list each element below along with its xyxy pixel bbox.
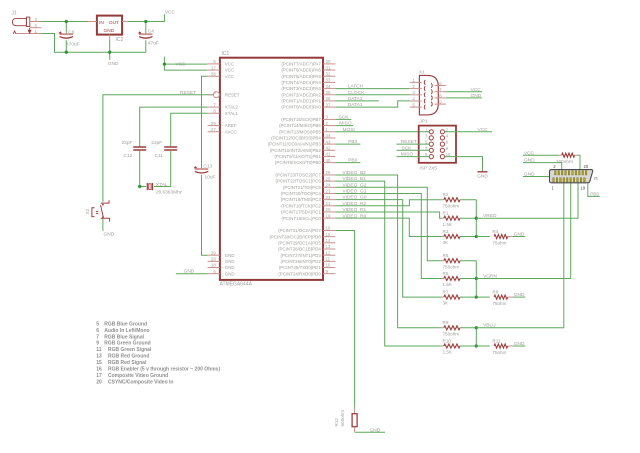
svg-text:19: 19	[326, 213, 331, 218]
IC2 OUT pin lead	[122, 21, 128, 23]
wire VIDEO_G0	[335, 200, 441, 297]
svg-text:75ohm: 75ohm	[492, 350, 506, 355]
J1 pin 1 lead	[16, 33, 41, 35]
wire CLOCK to DB9 pin3	[335, 94, 409, 96]
IC2 GND pin lead	[109, 35, 111, 40]
node: junction C4 / VCC wire	[144, 20, 147, 23]
svg-text:29: 29	[211, 121, 216, 126]
J1 sleeve caret	[13, 31, 16, 34]
svg-text:22: 22	[326, 195, 331, 200]
connector JP1 ISP 2X5	[419, 126, 456, 163]
capacitor C6	[60, 33, 74, 35]
svg-text:(PCINT22/TOSC1)PC6: (PCINT22/TOSC1)PC6	[275, 179, 321, 184]
svg-text:3K: 3K	[443, 301, 450, 306]
svg-text:S2: S2	[85, 208, 90, 214]
svg-text:9: 9	[96, 341, 99, 347]
wire LATCH to DB9 pin2	[335, 88, 409, 90]
svg-text:47uF: 47uF	[148, 40, 159, 46]
svg-text:27: 27	[211, 127, 216, 132]
svg-text:6: 6	[96, 328, 99, 334]
svg-text:RGB Red Ground: RGB Red Ground	[108, 354, 149, 360]
svg-text:VCC: VCC	[471, 87, 482, 93]
svg-text:R12: R12	[334, 418, 339, 427]
svg-text:VCC: VCC	[225, 62, 234, 67]
svg-text:GND: GND	[514, 292, 525, 298]
svg-text:CLOCK: CLOCK	[348, 90, 365, 96]
connector X1 DB9	[419, 75, 438, 115]
wire: IC2 GND to rail	[109, 40, 111, 60]
svg-text:GND: GND	[108, 61, 119, 67]
resistor R12 500ohm	[354, 408, 356, 414]
svg-text:12: 12	[326, 250, 331, 255]
svg-text:VIDEO_G2: VIDEO_G2	[342, 182, 366, 188]
wire VCC at DB9 pin7	[446, 91, 482, 93]
wire: C13 to IC1 pin39 GND	[202, 175, 208, 255]
wire JP1 pin10 to GND	[444, 157, 482, 172]
capacitor C13	[195, 168, 209, 170]
svg-text:VCC: VCC	[225, 68, 234, 73]
svg-text:750ohm: 750ohm	[443, 264, 460, 269]
svg-text:1.5K: 1.5K	[443, 222, 453, 227]
wire SCART pin19 to PB0	[588, 183, 600, 197]
svg-text:GND: GND	[514, 232, 525, 238]
svg-text:XTAL2: XTAL2	[225, 105, 239, 110]
svg-text:(PCINT9/CLKO/T1)PB1: (PCINT9/CLKO/T1)PB1	[274, 154, 321, 159]
resistor R1 1.5K	[442, 217, 444, 219]
wire: IC2 OUT to VCC	[128, 14, 165, 21]
svg-text:26: 26	[326, 170, 331, 175]
wire VIDEO_R0	[335, 218, 441, 236]
wire: RESET net from IC1 pin4 to switch S2	[103, 95, 213, 202]
svg-text:VIDEO_G1: VIDEO_G1	[342, 189, 366, 195]
svg-text:25: 25	[326, 176, 331, 181]
svg-text:31: 31	[326, 65, 331, 70]
wire MOSI to JP1 pin1	[335, 131, 429, 133]
resistor R6 750ohm	[442, 260, 444, 262]
svg-text:R7: R7	[443, 290, 449, 295]
svg-text:RGB Enabler (5 v through resis: RGB Enabler (5 v through resistor ~ 200 …	[108, 367, 220, 373]
svg-text:40: 40	[326, 158, 331, 163]
svg-text:37: 37	[326, 102, 331, 107]
svg-text:C13: C13	[203, 164, 212, 170]
wire VCC from JP1 pin2	[444, 131, 492, 133]
wire VIDEO_R2	[335, 200, 441, 206]
svg-text:(PCINT23/TOSC2)PC7: (PCINT23/TOSC2)PC7	[275, 173, 321, 178]
svg-text:VIDEO_B2: VIDEO_B2	[342, 170, 366, 176]
wire MISO to JP1 pin9	[397, 156, 430, 158]
svg-text:RESET: RESET	[180, 90, 196, 96]
resistor R2 750ohm	[442, 199, 444, 201]
svg-text:(PCINT29/OC1A)PD5: (PCINT29/OC1A)PD5	[278, 240, 321, 245]
svg-text:GND: GND	[370, 427, 381, 433]
svg-text:VIDEO_R0: VIDEO_R0	[342, 213, 366, 219]
svg-text:13: 13	[326, 244, 331, 249]
svg-text:(PCINT17/SDA)PC1: (PCINT17/SDA)PC1	[281, 210, 321, 215]
wire GND to SCART left	[523, 176, 550, 178]
svg-text:10: 10	[326, 263, 331, 268]
svg-text:32: 32	[326, 71, 331, 76]
svg-text:(PCINT7/ADC7)PA7: (PCINT7/ADC7)PA7	[281, 62, 321, 67]
svg-text:Audio In Left/Mono: Audio In Left/Mono	[104, 328, 149, 334]
wire VIDEO_B2	[335, 175, 441, 328]
svg-text:34: 34	[326, 84, 331, 89]
svg-text:VCC: VCC	[478, 127, 489, 133]
wire PD7 to R12	[335, 230, 354, 407]
svg-text:VCC: VCC	[225, 74, 234, 79]
svg-text:GND: GND	[104, 28, 115, 34]
svg-text:RGB Red Signal: RGB Red Signal	[108, 360, 147, 366]
svg-text:MOSI: MOSI	[343, 127, 355, 133]
svg-text:(PCINT8/XCK0/T0)PB0: (PCINT8/XCK0/T0)PB0	[275, 160, 321, 165]
wire GND at DB9 pin8	[446, 97, 482, 99]
svg-text:28.6363Mhz: 28.6363Mhz	[156, 189, 183, 195]
ground symbol at JP1	[478, 171, 488, 173]
wire: C6 bottom lead	[65, 40, 67, 52]
wire: jack sleeve to ground rail	[41, 34, 146, 53]
svg-text:18: 18	[211, 263, 216, 268]
svg-text:17: 17	[96, 373, 102, 379]
svg-text:(PCINT13/MOSI)PB5: (PCINT13/MOSI)PB5	[279, 129, 321, 134]
svg-text:Composite Video Ground: Composite Video Ground	[108, 373, 168, 379]
IC1 right pins	[323, 63, 335, 65]
node: junction crystal left	[138, 185, 141, 188]
resistor R9 750ohm	[442, 327, 444, 329]
IC2 IN pin lead	[88, 21, 97, 23]
svg-text:GND: GND	[184, 269, 195, 275]
wire resistor to SCART pin16	[577, 155, 580, 169]
IC IC1 ATMEGA644A body	[220, 58, 323, 280]
svg-text:22pF: 22pF	[151, 140, 162, 146]
svg-text:13: 13	[96, 354, 102, 360]
wire: DAC summing vertical	[475, 261, 477, 297]
svg-text:VCC: VCC	[165, 10, 176, 16]
svg-text:GND: GND	[225, 253, 235, 258]
wire DATA2 stub	[335, 100, 379, 102]
svg-text:(PCINT3/ADC3)PA3: (PCINT3/ADC3)PA3	[281, 86, 321, 91]
svg-text:7: 7	[96, 334, 99, 340]
wire RESET to JP1 pin5	[397, 143, 430, 145]
svg-text:(PCINT21/TDI)PC5: (PCINT21/TDI)PC5	[283, 185, 321, 190]
svg-text:(PCINT25/TXD0)PD1: (PCINT25/TXD0)PD1	[279, 265, 322, 270]
svg-text:DATA1: DATA1	[348, 102, 363, 108]
svg-text:MISO: MISO	[401, 152, 414, 158]
connector J1 audio jack	[12, 18, 26, 25]
svg-text:11: 11	[96, 347, 102, 353]
svg-text:XTAL: XTAL	[156, 182, 168, 188]
wire: XTAL1 pin8 to C11	[171, 113, 208, 146]
svg-text:XTAL1: XTAL1	[225, 111, 239, 116]
resistor R7 3K	[442, 296, 444, 298]
svg-text:(PCINT12/OC0B/SS)PB4: (PCINT12/OC0B/SS)PB4	[271, 136, 321, 141]
svg-text:3K: 3K	[443, 240, 450, 245]
node: junction J1/C6/IC2-IN	[65, 20, 68, 23]
svg-text:(PCINT18/TCK)PC2: (PCINT18/TCK)PC2	[281, 203, 321, 208]
svg-text:C12: C12	[124, 153, 133, 159]
svg-text:(PCINT15/SCK)PB7: (PCINT15/SCK)PB7	[281, 117, 321, 122]
svg-text:(PCINT14/MISO)PB6: (PCINT14/MISO)PB6	[279, 123, 321, 128]
wire: S2 to GND	[102, 219, 104, 231]
svg-text:R4: R4	[492, 229, 498, 234]
SCART pins top row	[555, 171, 557, 175]
svg-text:GND: GND	[225, 271, 235, 276]
wire DATA1 to DB9 pin4	[335, 101, 409, 107]
svg-text:(PCINT24/RXD0)PD0: (PCINT24/RXD0)PD0	[278, 271, 321, 276]
resistor R5 1.5K	[442, 278, 444, 280]
svg-text:(PCINT26/INT0)PD2: (PCINT26/INT0)PD2	[281, 259, 322, 264]
capacitor C12	[133, 146, 146, 148]
svg-text:(PCINT0/ADC0)PA0: (PCINT0/ADC0)PA0	[281, 105, 321, 110]
svg-text:ISP 2X5: ISP 2X5	[419, 165, 437, 171]
svg-text:GND: GND	[524, 158, 535, 164]
svg-text:(PCINT5/ADC5)PA5: (PCINT5/ADC5)PA5	[281, 74, 321, 79]
crystal XTAL 28.6363Mhz	[146, 183, 148, 190]
svg-text:R6: R6	[443, 253, 449, 258]
svg-text:15: 15	[96, 360, 102, 366]
resistor R3 3K	[442, 236, 444, 238]
svg-text:30: 30	[326, 59, 331, 64]
svg-text:VIDEO_G0: VIDEO_G0	[342, 195, 366, 201]
svg-text:C6: C6	[68, 29, 74, 35]
svg-text:IN: IN	[99, 20, 104, 26]
wire R12 to GND	[355, 431, 385, 433]
svg-text:VIDEO_R2: VIDEO_R2	[342, 201, 366, 207]
svg-text:16: 16	[326, 226, 331, 231]
svg-text:R8: R8	[492, 290, 498, 295]
svg-text:(PCINT20/TDO)PC4: (PCINT20/TDO)PC4	[281, 191, 322, 196]
svg-text:5: 5	[96, 321, 99, 327]
svg-text:IC1: IC1	[222, 51, 230, 57]
svg-text:GND: GND	[225, 259, 235, 264]
svg-text:X1: X1	[419, 70, 425, 76]
wire VIDEO_G2	[335, 187, 441, 260]
wire GND to SCART pin6	[523, 163, 562, 170]
wire SCK stub	[335, 118, 351, 120]
svg-text:23: 23	[326, 189, 331, 194]
svg-text:36: 36	[326, 96, 331, 101]
svg-text:20: 20	[326, 207, 331, 212]
svg-text:(PCINT19/TMS)PC3: (PCINT19/TMS)PC3	[281, 197, 322, 202]
wire VIDEO_G1	[335, 193, 441, 278]
svg-text:IC2: IC2	[116, 37, 124, 43]
svg-text:21: 21	[594, 176, 599, 181]
svg-text:44: 44	[326, 133, 331, 138]
svg-text:39: 39	[211, 250, 216, 255]
svg-text:17: 17	[211, 65, 216, 70]
svg-text:75ohm: 75ohm	[492, 240, 506, 245]
svg-text:ATMEGA644A: ATMEGA644A	[220, 281, 253, 287]
svg-text:GND: GND	[225, 265, 235, 270]
svg-text:PB3: PB3	[348, 139, 357, 145]
svg-text:20: 20	[584, 164, 589, 169]
wire MISO stub	[335, 125, 353, 127]
svg-text:PB0: PB0	[348, 158, 357, 164]
S2 lever	[101, 205, 104, 217]
svg-text:GND: GND	[104, 232, 115, 238]
svg-text:(PCINT28/OC1B)PD4: (PCINT28/OC1B)PD4	[278, 247, 321, 252]
SCART pins bottom row	[553, 178, 555, 182]
node: junction VCC pins 5/17	[163, 62, 166, 65]
svg-text:RGB Blue Ground: RGB Blue Ground	[104, 321, 147, 327]
svg-text:CSYNC/Composite Video In: CSYNC/Composite Video In	[108, 380, 173, 386]
wire: audio jack pin3 to regulator IN	[41, 21, 87, 23]
J1 switch arrow	[28, 28, 31, 34]
svg-text:750ohm: 750ohm	[443, 331, 460, 336]
wire: DAC summing vertical	[475, 200, 477, 237]
svg-text:470uF: 470uF	[66, 41, 80, 47]
wire: VCC label to IC1 pins 5 and 17	[164, 57, 207, 71]
wire VRED to SCART pin15	[476, 183, 578, 218]
svg-text:41: 41	[326, 152, 331, 157]
svg-text:R10: R10	[443, 338, 452, 343]
svg-text:(PCINT6/ADC6)PA6: (PCINT6/ADC6)PA6	[281, 68, 321, 73]
svg-text:(PCINT30/OC2B/ICP)PD6: (PCINT30/OC2B/ICP)PD6	[270, 234, 322, 239]
svg-text:LATCH: LATCH	[348, 84, 364, 90]
svg-text:J1: J1	[12, 11, 18, 17]
J1 pin 2 lead	[30, 27, 42, 29]
svg-text:SCK: SCK	[402, 145, 413, 151]
svg-text:33: 33	[326, 78, 331, 83]
wire SCK to JP1 pin7	[397, 149, 430, 151]
wire PB3 stub	[335, 143, 360, 145]
svg-text:500ohm: 500ohm	[340, 410, 345, 427]
svg-text:R11: R11	[492, 339, 501, 344]
svg-text:GND: GND	[471, 93, 482, 99]
svg-text:RGB Blue Signal: RGB Blue Signal	[104, 334, 144, 340]
svg-text:(PCINT4/ADC4)PA4: (PCINT4/ADC4)PA4	[281, 80, 321, 85]
wire: C4 top lead	[145, 22, 147, 34]
resistor R10 1.5K	[442, 345, 444, 347]
svg-text:OUT: OUT	[109, 20, 119, 26]
S2 actuator bracket	[92, 208, 95, 217]
svg-text:28: 28	[211, 257, 216, 262]
svg-text:(PCINT16/SCL)PC0: (PCINT16/SCL)PC0	[282, 216, 322, 221]
svg-text:19: 19	[581, 185, 586, 190]
wire: C6 top lead	[65, 22, 67, 34]
svg-text:R9: R9	[443, 320, 449, 325]
svg-text:GND: GND	[477, 174, 488, 180]
svg-text:15: 15	[326, 232, 331, 237]
svg-text:14: 14	[326, 238, 331, 243]
resistor 160ohm	[559, 154, 562, 156]
svg-text:R3: R3	[443, 229, 449, 234]
wire: XTAL2 pin7 to C12	[140, 107, 208, 147]
wire: GND to IC1 pin6	[176, 273, 208, 275]
svg-text:PB0: PB0	[590, 192, 599, 198]
IC1 left pins	[208, 63, 220, 65]
voltage regulator IC2	[97, 16, 122, 35]
wire: C12 to crystal	[140, 151, 146, 187]
wire VIDEO_B1	[335, 181, 441, 346]
svg-text:SCK: SCK	[339, 115, 350, 121]
svg-text:16: 16	[96, 367, 102, 373]
wire: C4 bottom lead	[145, 40, 147, 52]
connector X2 SCART	[550, 170, 593, 183]
switch S2	[101, 200, 109, 203]
wire PB0 stub	[335, 162, 360, 164]
svg-text:R2: R2	[443, 192, 449, 197]
svg-text:42: 42	[326, 145, 331, 150]
svg-text:C11: C11	[155, 153, 164, 159]
JP1 pin circles	[429, 130, 433, 134]
svg-text:R1: R1	[443, 211, 449, 216]
wire VCC to resistor R13	[523, 154, 559, 156]
X1 right pins 6-9	[435, 85, 446, 87]
svg-text:20: 20	[96, 380, 102, 386]
svg-text:GND: GND	[514, 341, 525, 347]
svg-text:R5: R5	[443, 271, 449, 276]
svg-text:1.5K: 1.5K	[443, 282, 453, 287]
svg-text:38: 38	[211, 71, 216, 76]
wire VGRN to SCART pin11	[476, 183, 570, 279]
svg-text:MISO: MISO	[339, 121, 352, 127]
wire: IC1 pin38 VCC to C13	[202, 76, 208, 168]
resistor R11 75ohm to GND	[476, 345, 490, 347]
svg-text:750ohm: 750ohm	[443, 203, 460, 208]
svg-text:RESET: RESET	[401, 139, 417, 145]
wire VIDEO_R1	[335, 212, 441, 218]
svg-text:(PCINT1/ADC1)PA1: (PCINT1/ADC1)PA1	[281, 99, 321, 104]
node: junction C6 / ground rail	[65, 51, 68, 54]
svg-text:11: 11	[326, 257, 331, 262]
svg-text:(PCINT10/INT2/AIN0)PB2: (PCINT10/INT2/AIN0)PB2	[270, 148, 322, 153]
svg-text:VIDEO_B1: VIDEO_B1	[342, 176, 366, 182]
svg-text:75ohm: 75ohm	[492, 301, 506, 306]
node: junction IC2 GND / rail	[108, 51, 111, 54]
svg-text:1.5K: 1.5K	[443, 350, 453, 355]
svg-text:(PCINT11/OC0A/AIN1)PB3: (PCINT11/OC0A/AIN1)PB3	[268, 142, 322, 147]
wire: DAC summing vertical	[475, 328, 477, 346]
svg-text:21: 21	[326, 201, 331, 206]
svg-text:VIDEO_R1: VIDEO_R1	[342, 207, 366, 213]
svg-text:GND: GND	[524, 172, 535, 178]
svg-text:43: 43	[326, 139, 331, 144]
capacitor C11	[164, 146, 177, 148]
svg-text:C4: C4	[148, 28, 154, 34]
svg-text:160ohm: 160ohm	[556, 159, 573, 165]
svg-text:RGB Green Ground: RGB Green Ground	[104, 341, 150, 347]
svg-text:22pF: 22pF	[122, 140, 133, 146]
svg-text:VCC: VCC	[524, 150, 535, 156]
svg-text:JP1: JP1	[419, 118, 428, 124]
svg-text:35: 35	[326, 90, 331, 95]
svg-text:DATA2: DATA2	[348, 96, 363, 102]
svg-text:RESET: RESET	[225, 92, 240, 97]
svg-text:(PCINT31/OC2A)PD7: (PCINT31/OC2A)PD7	[278, 228, 321, 233]
svg-text:(PCINT27/INT1)PD3: (PCINT27/INT1)PD3	[281, 253, 322, 258]
resistor R4 75ohm to GND	[476, 236, 490, 238]
svg-text:24: 24	[326, 183, 331, 188]
svg-text:(PCINT2/ADC2)PA2: (PCINT2/ADC2)PA2	[281, 92, 321, 97]
wire VBLU to SCART pin7	[476, 183, 564, 328]
svg-text:AREF: AREF	[225, 123, 237, 128]
wire: C11 to crystal right	[154, 151, 171, 187]
resistor R8 75ohm to GND	[476, 296, 490, 298]
X1 left pins 1-5	[410, 81, 422, 83]
svg-text:RGB Green Signal: RGB Green Signal	[108, 347, 152, 353]
svg-text:10uF: 10uF	[205, 174, 216, 180]
J1 pin 3 lead	[30, 21, 42, 23]
svg-text:AVCC: AVCC	[225, 129, 237, 134]
